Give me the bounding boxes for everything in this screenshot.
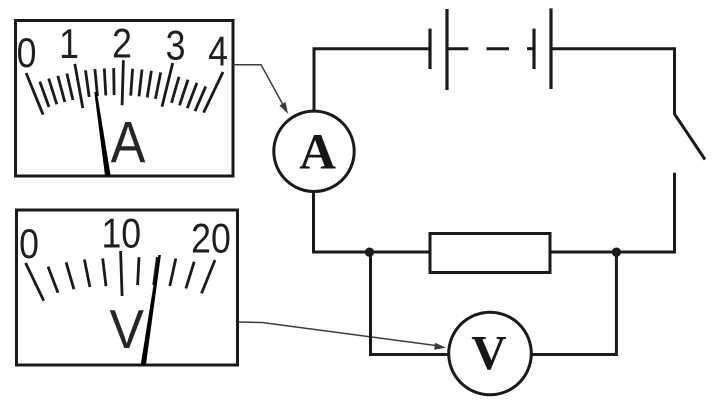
svg-text:0: 0	[17, 31, 37, 77]
bottom main wire left of resistor	[312, 251, 430, 254]
callout arrow from voltmeter face to meter V	[238, 322, 446, 350]
svg-text:A: A	[299, 125, 336, 181]
voltmeter scale numbers 0 10 20	[19, 211, 231, 268]
svg-text:4: 4	[208, 29, 228, 75]
svg-text:3: 3	[166, 23, 186, 69]
voltmeter needle	[141, 255, 161, 365]
battery G1: cell 1 long (positive) plate	[445, 9, 448, 90]
dashed link indicating more cells	[487, 47, 510, 50]
wire: A meter down to bottom wire	[312, 192, 315, 253]
battery G1: cell 2 long (positive) plate	[549, 8, 552, 89]
wire: left junction down to voltmeter	[371, 252, 450, 355]
ammeter scale numbers 0 1 2 3 4	[17, 21, 228, 77]
junction node dot right	[612, 248, 621, 257]
callout arrow from ammeter face to meter A	[233, 65, 288, 114]
battery G1: cell 2 short (negative) plate	[532, 29, 535, 69]
svg-text:V: V	[471, 325, 506, 380]
ammeter meter-face box	[16, 21, 234, 177]
voltmeter meter-face box	[17, 210, 238, 365]
svg-text:10: 10	[101, 211, 141, 257]
battery G1: cell 1 short (negative) plate	[428, 29, 431, 69]
voltmeter meter circle V	[449, 312, 532, 395]
switch lower contact wire down to bottom wire	[616, 173, 674, 252]
ammeter needle	[94, 92, 110, 176]
bottom main wire right of resistor	[550, 251, 616, 254]
svg-text:20: 20	[191, 216, 231, 262]
svg-text:A: A	[111, 110, 146, 175]
ammeter meter circle A	[274, 111, 354, 191]
wire: top-left from ammeter A up and right to battery	[314, 49, 430, 111]
junction node dot left	[365, 248, 374, 257]
wire: voltmeter to right junction	[531, 252, 616, 355]
svg-text:0: 0	[19, 222, 39, 268]
ammeter scale ticks	[26, 60, 223, 114]
svg-text:1: 1	[59, 22, 79, 68]
switch S blade (open)	[675, 114, 706, 160]
resistor R	[430, 234, 550, 273]
wire stub left of cell 2	[527, 47, 534, 50]
voltmeter scale ticks	[26, 251, 215, 301]
svg-text:V: V	[109, 300, 144, 361]
svg-text:2: 2	[112, 21, 132, 67]
wire: battery to top-right corner down to switch	[551, 49, 675, 115]
wire stub right of cell 1	[449, 47, 469, 50]
